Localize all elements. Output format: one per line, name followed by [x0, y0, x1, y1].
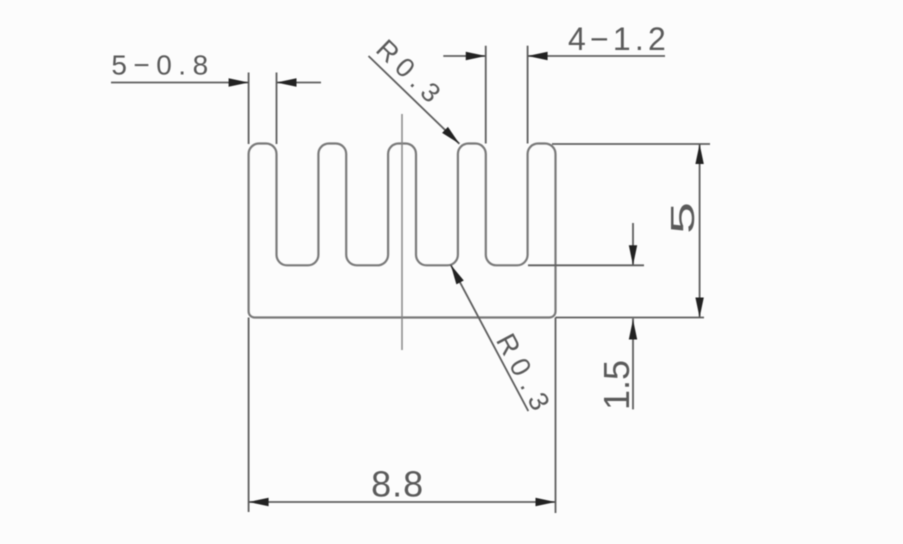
dim 8.8: arrow pointing left — [249, 498, 269, 506]
svg-text:1.5: 1.5 — [596, 360, 637, 410]
svg-text:8.8: 8.8 — [371, 464, 424, 505]
dim 4-1.2: arrow pointing left — [528, 52, 548, 60]
dim 1.5: lower stub with arrow pointing up — [632, 319, 634, 410]
dim 4-1.2: extension line right — [527, 46, 529, 144]
dim 4-1.2: extension line left — [485, 46, 487, 144]
centerline through fin 3 — [401, 114, 403, 350]
svg-text:4−1.2: 4−1.2 — [568, 21, 670, 57]
dim 5: top extension line — [552, 143, 710, 145]
dim 5: arrow pointing down — [695, 298, 703, 318]
dim 8.8: arrow pointing right — [536, 498, 556, 506]
heatsink profile outline — [249, 143, 556, 317]
svg-text:R0.3: R0.3 — [370, 34, 451, 113]
svg-text:R0.3: R0.3 — [490, 328, 560, 422]
dim 5-0.8: extension line right — [276, 73, 278, 145]
dim 5-0.8: right stub — [277, 82, 322, 84]
dim 5: dimension line — [699, 144, 701, 318]
dim 1.5: upper stub with arrow pointing down — [632, 223, 634, 265]
leader R0.3 bottom: line — [451, 265, 529, 411]
dim 8.8: extension line left — [248, 318, 250, 513]
svg-text:5: 5 — [664, 202, 701, 234]
dim 8.8: extension line right — [555, 318, 557, 514]
dim 5-0.8: extension line left — [248, 73, 250, 145]
dim 8.8: dimension line — [249, 501, 556, 503]
dim 5: arrow pointing up — [695, 144, 703, 164]
dim 4-1.2: left stub — [443, 55, 485, 57]
dim 1.5: slot-bottom level extension line — [528, 264, 644, 266]
dim 4-1.2: arrow pointing right — [466, 52, 486, 60]
dim 5: bottom extension line — [556, 317, 705, 319]
svg-text:5−0.8: 5−0.8 — [111, 50, 214, 81]
dim 5-0.8: arrow pointing left — [277, 78, 297, 86]
dim 5-0.8: dimension line with text shelf — [111, 82, 249, 84]
dim 4-1.2: dimension line with text shelf — [528, 55, 665, 57]
leader R0.3 top: arrow at fin4 corner — [442, 127, 462, 147]
dim 5-0.8: arrow pointing right — [229, 78, 249, 86]
leader R0.3 top: line — [369, 56, 460, 144]
leader R0.3 bottom: arrow at slot3 fillet — [447, 263, 464, 285]
